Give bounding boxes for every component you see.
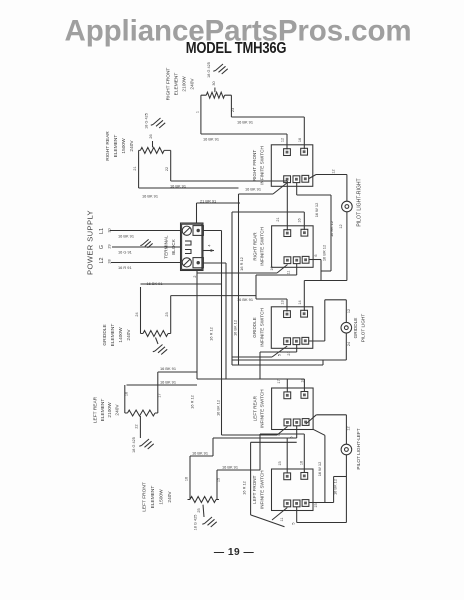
- svg-text:21 BR 91: 21 BR 91: [200, 198, 216, 203]
- wire left rear switch L2 stub: [213, 426, 297, 456]
- wire to left rear switch terminals: [197, 379, 304, 392]
- wire right rear switch P to pilot return: [309, 260, 332, 281]
- svg-text:22: 22: [135, 424, 139, 428]
- svg-text:1: 1: [195, 111, 199, 113]
- svg-text:16 BK 91: 16 BK 91: [237, 297, 253, 302]
- wire left front element right lead to switch: [190, 434, 304, 470]
- switch right front infinite box: [271, 145, 313, 187]
- svg-text:16 G 91: 16 G 91: [118, 250, 132, 255]
- resistor griddle element: [141, 331, 171, 337]
- wire right rear element right lead: [170, 150, 172, 181]
- wire to griddle switch terminals: [287, 281, 304, 312]
- pilot light left: [341, 444, 352, 455]
- svg-text:240V: 240V: [167, 491, 173, 503]
- left rear element label: [93, 396, 121, 423]
- svg-text:16 BK 91: 16 BK 91: [237, 120, 253, 125]
- svg-text:GRIDDLE: GRIDDLE: [353, 318, 358, 339]
- svg-text:MODEL TMH36G: MODEL TMH36G: [186, 40, 287, 57]
- svg-text:16 BK 91: 16 BK 91: [222, 465, 238, 470]
- wire griddle element right lead: [170, 296, 172, 334]
- wire pilot light left return: [297, 455, 347, 523]
- svg-text:30: 30: [212, 81, 216, 85]
- svg-text:16 BK 91: 16 BK 91: [142, 194, 158, 199]
- svg-text:ELEMENT: ELEMENT: [110, 324, 116, 347]
- svg-text:16 BK 91: 16 BK 91: [203, 137, 219, 142]
- svg-text:18 G 425: 18 G 425: [132, 437, 136, 453]
- svg-text:12: 12: [332, 169, 336, 173]
- svg-text:ELEMENT: ELEMENT: [174, 73, 180, 96]
- svg-text:24: 24: [135, 312, 139, 316]
- svg-text:16 BK 91: 16 BK 91: [147, 281, 163, 286]
- arrow stub at terminal block: [204, 244, 215, 252]
- ground at right rear element: [145, 113, 166, 147]
- wire griddle switch P to griddle pilot light: [309, 300, 347, 341]
- wire bus left mid: [127, 284, 222, 385]
- svg-text:LEFT REAR: LEFT REAR: [93, 396, 99, 423]
- switch griddle infinite box: [271, 307, 313, 349]
- svg-text:BLOCK: BLOCK: [171, 238, 176, 255]
- svg-text:ELEMENT: ELEMENT: [113, 135, 119, 158]
- svg-text:18 G 425: 18 G 425: [207, 62, 211, 78]
- wire right rear switch H2 riser: [232, 212, 304, 365]
- ground at left front element: [194, 505, 217, 531]
- svg-text:G: G: [99, 245, 105, 249]
- svg-text:16 R 12: 16 R 12: [242, 481, 247, 495]
- svg-text:18 G 425: 18 G 425: [145, 113, 149, 129]
- svg-text:17: 17: [158, 393, 162, 397]
- griddle pilot light: [341, 322, 352, 333]
- svg-text:GRIDDLE: GRIDDLE: [102, 324, 108, 345]
- svg-text:1500W: 1500W: [159, 489, 165, 505]
- svg-text:16 BK 91: 16 BK 91: [245, 187, 261, 192]
- ground at right front element: [207, 62, 228, 92]
- svg-text:2: 2: [193, 275, 197, 277]
- svg-text:L2: L2: [99, 258, 105, 264]
- wire to right front switch terminals: [287, 117, 304, 150]
- wire G supply: [112, 246, 181, 248]
- switch left front infinite box: [272, 469, 314, 511]
- svg-text:24: 24: [347, 342, 351, 346]
- svg-text:16: 16: [300, 461, 304, 465]
- wire L1 supply: [110, 230, 181, 232]
- svg-text:16 W 12: 16 W 12: [314, 203, 319, 218]
- wire L1 riser to right front switch: [239, 183, 288, 204]
- svg-text:INFINITE SWITCH: INFINITE SWITCH: [259, 146, 264, 185]
- wire terminal block bottom to right rear switch L1: [197, 265, 288, 380]
- wire right rear element to switch: [171, 180, 288, 182]
- wire to right rear switch terminals: [287, 181, 304, 231]
- svg-text:LEFT FRONT: LEFT FRONT: [252, 475, 257, 503]
- svg-text:1400W: 1400W: [118, 327, 124, 343]
- svg-text:11: 11: [280, 518, 284, 522]
- svg-text:10: 10: [270, 266, 274, 270]
- svg-text:16 R 12: 16 R 12: [239, 257, 244, 271]
- svg-text:INFINITE SWITCH: INFINITE SWITCH: [260, 227, 265, 266]
- svg-text:16 BK 91: 16 BK 91: [192, 451, 208, 456]
- switch left front infinite label: [252, 470, 264, 509]
- wire right rear element left lead: [138, 150, 140, 188]
- wire right rear switch L2 stub: [256, 264, 297, 299]
- svg-text:23: 23: [165, 312, 169, 316]
- ground at griddle element: [153, 338, 167, 355]
- svg-text:240V: 240V: [129, 140, 135, 152]
- svg-text:LEFT REAR: LEFT REAR: [252, 395, 257, 421]
- svg-text:GRIDDLE: GRIDDLE: [252, 317, 257, 337]
- svg-text:TERMINAL: TERMINAL: [164, 235, 169, 259]
- pilot light right: [342, 201, 353, 212]
- switch left rear infinite label: [252, 389, 264, 428]
- wire pilot light right return: [304, 212, 347, 281]
- right front element label: [166, 68, 196, 101]
- svg-text:— 19 —: — 19 —: [214, 547, 255, 558]
- wire right rear element left lead run: [139, 187, 239, 189]
- svg-text:RIGHT REAR: RIGHT REAR: [105, 131, 111, 161]
- svg-text:16 R 12: 16 R 12: [209, 327, 214, 341]
- wire right front element right lead: [230, 95, 232, 117]
- svg-text:21: 21: [287, 351, 291, 355]
- svg-text:ELEMENT: ELEMENT: [150, 486, 156, 509]
- wire griddle switch L1 drop: [232, 346, 287, 357]
- svg-text:16: 16: [185, 477, 189, 481]
- wire left front switch P: [309, 477, 347, 503]
- wire left front switch L2 stub: [296, 507, 298, 523]
- wire left rear element left lead: [124, 385, 126, 413]
- svg-text:INFINITE SWITCH: INFINITE SWITCH: [259, 308, 264, 347]
- wire left front element right lead: [216, 470, 218, 500]
- svg-text:15: 15: [217, 478, 221, 482]
- svg-text:PILOT LIGHT-LEFT: PILOT LIGHT-LEFT: [356, 428, 361, 469]
- resistor left front element: [188, 497, 220, 503]
- svg-text:ELEMENT: ELEMENT: [100, 399, 106, 422]
- svg-text:16 R 12: 16 R 12: [190, 395, 195, 409]
- svg-text:21: 21: [133, 166, 137, 170]
- svg-text:15: 15: [314, 503, 318, 507]
- wire bus from node at 240 down to griddle: [171, 203, 256, 365]
- svg-text:16 BK 12: 16 BK 12: [233, 320, 238, 336]
- wire left front switch L1 drop: [251, 442, 297, 527]
- svg-text:LEFT FRONT: LEFT FRONT: [142, 482, 148, 512]
- wire right front switch P to pilot light right: [309, 175, 347, 202]
- wire left rear element right lead: [157, 372, 159, 413]
- svg-text:16 BK 91: 16 BK 91: [160, 380, 176, 385]
- ground at left rear element: [132, 416, 154, 453]
- svg-text:12: 12: [281, 138, 285, 142]
- svg-text:11: 11: [287, 271, 291, 275]
- resistor left rear element: [125, 410, 158, 416]
- svg-text:16 BK 91: 16 BK 91: [160, 366, 176, 371]
- svg-text:13: 13: [281, 300, 285, 304]
- wire right front element left lead: [200, 95, 202, 134]
- svg-text:16: 16: [298, 218, 302, 222]
- switch right rear infinite label: [252, 227, 264, 266]
- switch right front infinite label: [252, 146, 264, 185]
- ground on supply G wire: [140, 239, 152, 248]
- wire to left rear element right lead: [158, 371, 197, 373]
- right rear element label: [105, 131, 135, 161]
- wire right front switch L2 to bus: [297, 183, 331, 271]
- griddle pilot light label: [353, 314, 365, 343]
- svg-text:18 G 425: 18 G 425: [194, 515, 198, 531]
- svg-text:18: 18: [300, 378, 304, 382]
- svg-text:6: 6: [314, 254, 318, 256]
- terminal block label: [164, 235, 176, 259]
- svg-text:4: 4: [208, 244, 212, 246]
- wire griddle element left lead: [140, 287, 142, 334]
- svg-text:16 BK 12: 16 BK 12: [329, 221, 334, 237]
- svg-text:16: 16: [124, 392, 128, 396]
- svg-text:RIGHT REAR: RIGHT REAR: [252, 232, 257, 261]
- svg-text:16 W 12: 16 W 12: [317, 462, 322, 477]
- svg-text:12: 12: [346, 426, 350, 430]
- svg-text:240V: 240V: [114, 404, 120, 416]
- svg-text:12: 12: [339, 224, 343, 228]
- svg-text:2100W: 2100W: [107, 402, 113, 418]
- svg-text:5: 5: [278, 354, 282, 356]
- svg-text:POWER SUPPLY: POWER SUPPLY: [86, 210, 95, 275]
- svg-text:16 BK 91: 16 BK 91: [118, 234, 134, 239]
- wire terminal block tab L1 to bus: [203, 231, 221, 436]
- svg-text:17: 17: [277, 379, 281, 383]
- svg-text:23: 23: [231, 108, 235, 112]
- griddle element label: [102, 324, 132, 347]
- svg-text:15: 15: [278, 461, 282, 465]
- wire L2 supply: [111, 262, 181, 264]
- wire griddle switch L2 stub: [260, 345, 297, 379]
- svg-text:RIGHT FRONT: RIGHT FRONT: [166, 68, 172, 101]
- svg-text:14: 14: [298, 300, 302, 304]
- svg-text:INFINITE SWITCH: INFINITE SWITCH: [260, 389, 265, 428]
- svg-text:INFINITE SWITCH: INFINITE SWITCH: [260, 470, 265, 509]
- svg-text:25: 25: [197, 508, 201, 512]
- svg-text:28: 28: [108, 259, 112, 263]
- wire left rear switch L1 drop: [222, 427, 288, 436]
- wire left front element left lead: [189, 456, 191, 500]
- svg-text:29: 29: [108, 244, 112, 248]
- wire griddle pilot light return: [232, 333, 346, 365]
- wire L1 from terminal block top: [197, 203, 241, 223]
- svg-text:1500W: 1500W: [121, 138, 127, 154]
- left front element label: [142, 482, 174, 512]
- svg-text:12: 12: [347, 309, 351, 313]
- wire right front element to switch (H2): [231, 116, 304, 118]
- wire terminal block tab L2 to bus: [203, 263, 226, 379]
- switch right rear infinite box: [272, 226, 314, 267]
- svg-text:16 BR 12: 16 BR 12: [321, 245, 326, 261]
- wire right front element to switch (H1): [201, 133, 287, 135]
- svg-text:16 BK 12: 16 BK 12: [216, 400, 221, 416]
- svg-text:240V: 240V: [126, 329, 132, 341]
- svg-text:PILOT LIGHT-RIGHT: PILOT LIGHT-RIGHT: [357, 178, 363, 226]
- svg-text:5: 5: [292, 522, 296, 524]
- terminal block: [181, 223, 204, 271]
- svg-text:5: 5: [290, 436, 294, 438]
- svg-text:26: 26: [149, 134, 153, 138]
- svg-text:16: 16: [298, 138, 302, 142]
- resistor right front element: [201, 92, 232, 98]
- switch left rear infinite box: [272, 388, 314, 430]
- svg-text:RIGHT FRONT: RIGHT FRONT: [252, 150, 257, 181]
- svg-text:PILOT LIGHT: PILOT LIGHT: [360, 314, 365, 343]
- svg-text:L1: L1: [99, 228, 105, 234]
- wire to left front switch terminals: [287, 434, 304, 473]
- switch griddle infinite label: [252, 308, 264, 347]
- svg-text:2100W: 2100W: [182, 76, 188, 92]
- svg-text:16 R 91: 16 R 91: [118, 265, 132, 270]
- svg-text:22: 22: [165, 167, 169, 171]
- wire bus right lower: [313, 429, 325, 502]
- svg-text:240V: 240V: [190, 78, 196, 90]
- svg-text:21: 21: [276, 217, 280, 221]
- wire left rear switch P to pilot light left: [306, 415, 347, 445]
- resistor right rear element: [139, 147, 171, 153]
